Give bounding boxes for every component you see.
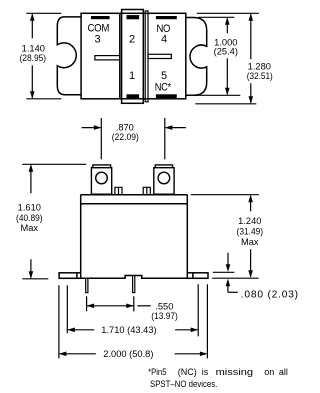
dimension 1.710 (43.43) (67, 284, 198, 336)
dimension .550 (13.97) pin spacing (87, 296, 151, 311)
bottom baseline with centre notch (81, 276, 188, 279)
svg-text:.870: .870 (116, 122, 134, 132)
pin below pin3 position (86, 278, 88, 292)
dimension 1.240 (31.49) Max right of front view (191, 195, 259, 277)
svg-text:4: 4 (161, 33, 167, 45)
mounting flange left (59, 273, 81, 279)
svg-text:2.000 (50.8): 2.000 (50.8) (103, 349, 153, 359)
moulded post right of centre (143, 187, 150, 194)
terminal bar pin 5 (156, 94, 177, 98)
svg-text:NC*: NC* (155, 81, 172, 93)
cover cap band (81, 195, 188, 204)
svg-text:5: 5 (161, 70, 167, 82)
relay body outline (top view) (81, 13, 186, 99)
T-slot in COM section (95, 56, 120, 60)
dimension .870 (22.09) between terminal centres (82, 118, 186, 159)
svg-text:(40.89): (40.89) (16, 213, 43, 223)
svg-text:(32.51): (32.51) (247, 71, 273, 81)
terminal bar pin 2 (127, 15, 140, 19)
svg-text:3: 3 (94, 33, 100, 45)
moulded post left of centre (115, 187, 122, 194)
QC terminal left (91, 165, 111, 194)
dimension 1.140 (28.95) left of top view (26, 13, 61, 99)
svg-text:1.610: 1.610 (18, 202, 41, 212)
relay body sides (front view) (59, 195, 208, 279)
svg-text:1: 1 (129, 70, 135, 82)
svg-text:(22.09): (22.09) (112, 132, 139, 142)
T-slot in NO section (148, 54, 171, 58)
terminal bar pin 4 (156, 16, 177, 19)
svg-text:2: 2 (129, 33, 135, 45)
svg-text:Max: Max (21, 223, 39, 233)
centre pole box (pins 2/1) (122, 10, 144, 104)
svg-text:(31.49): (31.49) (237, 226, 263, 236)
svg-text:1.140: 1.140 (22, 43, 45, 53)
left flange (top view) (57, 17, 81, 95)
wall between COM section and centre box (119, 13, 121, 99)
svg-text:1.710 (43.43): 1.710 (43.43) (101, 325, 156, 335)
dimension .080 (2.03) flange thickness (212, 253, 258, 292)
svg-text:.550: .550 (155, 301, 173, 311)
dimension 1.610 (40.89) Max left of front view (22, 164, 86, 278)
QC terminal right (154, 165, 174, 194)
dimension 1.000 (25.4) right of top view (192, 17, 240, 95)
svg-text:.080 (2.03): .080 (2.03) (241, 290, 299, 301)
dimension 2.000 (50.8) (59, 284, 208, 358)
svg-text:1.240: 1.240 (238, 216, 261, 226)
svg-text:(25.4): (25.4) (214, 46, 238, 56)
svg-text:1.280: 1.280 (248, 61, 271, 71)
mounting flange right (187, 273, 208, 279)
terminal bar pin 3 (91, 16, 110, 19)
dimension 1.280 (32.51) far right of top view (195, 13, 259, 104)
terminal bar pin 1 (127, 94, 140, 98)
pin below centre (133, 276, 135, 293)
narrow slot right of centre box (145, 11, 148, 102)
svg-text:Max: Max (241, 237, 259, 247)
right flange (top view) (186, 18, 206, 96)
svg-text:(13.97): (13.97) (151, 311, 178, 321)
svg-text:(28.95): (28.95) (20, 53, 47, 63)
svg-text:SPST–NO devices.: SPST–NO devices. (150, 379, 217, 389)
